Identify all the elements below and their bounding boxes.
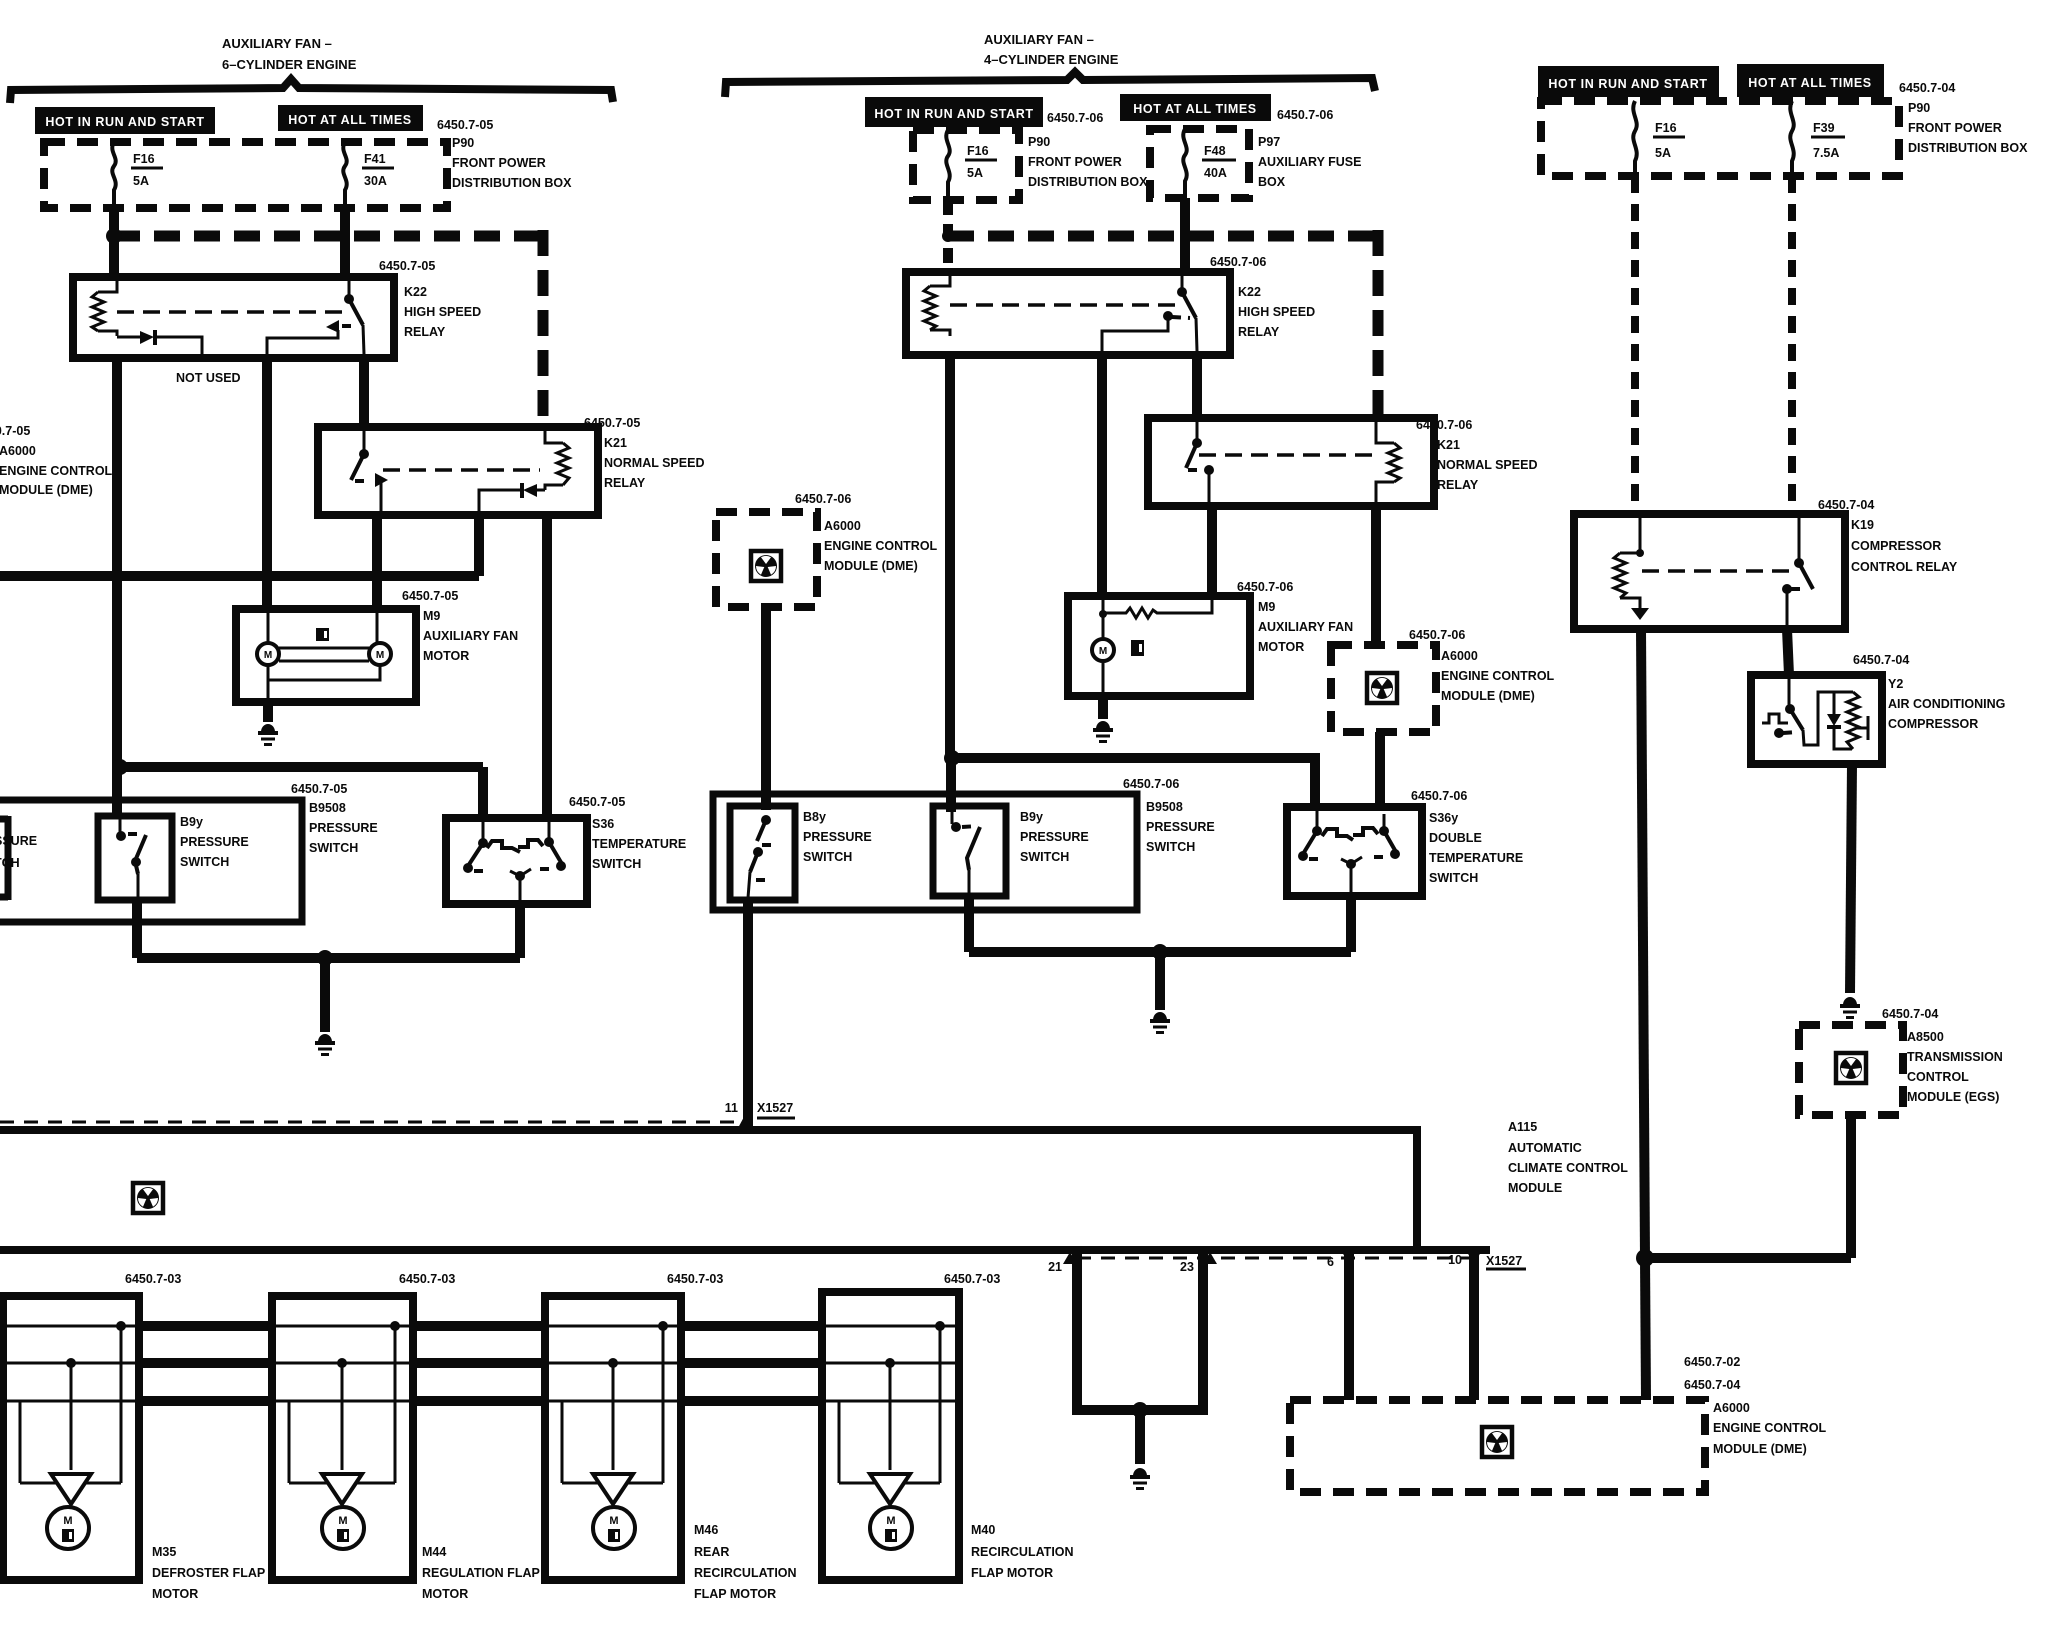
svg-text:6450.7-05: 6450.7-05: [402, 589, 458, 603]
svg-text:PRESSURE: PRESSURE: [309, 821, 378, 835]
svg-text:RELAY: RELAY: [404, 325, 446, 339]
svg-text:6450.7-06: 6450.7-06: [1237, 580, 1293, 594]
svg-text:X1527: X1527: [757, 1101, 793, 1115]
svg-text:SWITCH: SWITCH: [592, 857, 641, 871]
svg-text:FLAP MOTOR: FLAP MOTOR: [694, 1587, 776, 1601]
svg-text:6450.7-06: 6450.7-06: [1411, 789, 1467, 803]
svg-text:23: 23: [1180, 1260, 1194, 1274]
svg-text:NORMAL SPEED: NORMAL SPEED: [1437, 458, 1537, 472]
svg-text:B9508: B9508: [1146, 800, 1183, 814]
svg-text:6450.7-02: 6450.7-02: [1684, 1355, 1740, 1369]
svg-text:F16: F16: [133, 152, 155, 166]
svg-text:REGULATION FLAP: REGULATION FLAP: [422, 1566, 540, 1580]
svg-text:AUTOMATIC: AUTOMATIC: [1508, 1141, 1582, 1155]
svg-text:MODULE (DME): MODULE (DME): [0, 483, 93, 497]
svg-text:TRANSMISSION: TRANSMISSION: [1907, 1050, 2003, 1064]
svg-text:REAR: REAR: [694, 1545, 729, 1559]
svg-text:TEMPERATURE: TEMPERATURE: [1429, 851, 1523, 865]
svg-text:40A: 40A: [1204, 166, 1227, 180]
svg-text:A6000: A6000: [1713, 1401, 1750, 1415]
svg-text:5A: 5A: [967, 166, 983, 180]
svg-text:P90: P90: [452, 136, 474, 150]
svg-text:AUXILIARY FAN –: AUXILIARY FAN –: [222, 36, 332, 51]
svg-text:PRESSURE: PRESSURE: [803, 830, 872, 844]
svg-text:K21: K21: [1437, 438, 1460, 452]
svg-text:FRONT POWER: FRONT POWER: [1908, 121, 2002, 135]
svg-text:SWITCH: SWITCH: [309, 841, 358, 855]
svg-text:TEMPERATURE: TEMPERATURE: [592, 837, 686, 851]
svg-text:BOX: BOX: [1258, 175, 1286, 189]
svg-text:K19: K19: [1851, 518, 1874, 532]
svg-text:AUXILIARY FUSE: AUXILIARY FUSE: [1258, 155, 1362, 169]
svg-text:6450.7-03: 6450.7-03: [399, 1272, 455, 1286]
svg-text:ENGINE CONTROL: ENGINE CONTROL: [1713, 1421, 1827, 1435]
svg-text:DISTRIBUTION BOX: DISTRIBUTION BOX: [452, 176, 572, 190]
svg-text:DEFROSTER FLAP: DEFROSTER FLAP: [152, 1566, 265, 1580]
svg-text:PRESSURE: PRESSURE: [180, 835, 249, 849]
svg-text:CONTROL RELAY: CONTROL RELAY: [1851, 560, 1958, 574]
svg-text:ENGINE CONTROL: ENGINE CONTROL: [0, 464, 113, 478]
svg-text:F39: F39: [1813, 121, 1835, 135]
svg-text:MOTOR: MOTOR: [152, 1587, 198, 1601]
svg-text:AUXILIARY FAN: AUXILIARY FAN: [423, 629, 518, 643]
svg-text:6450.7-05: 6450.7-05: [437, 118, 493, 132]
svg-text:X1527: X1527: [1486, 1254, 1522, 1268]
svg-text:6450.7-06: 6450.7-06: [1047, 111, 1103, 125]
svg-text:PRESSURE: PRESSURE: [1020, 830, 1089, 844]
svg-text:11: 11: [725, 1101, 738, 1115]
svg-text:M9: M9: [1258, 600, 1275, 614]
svg-text:6450.7-06: 6450.7-06: [1210, 255, 1266, 269]
svg-text:F48: F48: [1204, 144, 1226, 158]
svg-text:6–CYLINDER ENGINE: 6–CYLINDER ENGINE: [222, 57, 357, 72]
svg-text:HOT AT ALL TIMES: HOT AT ALL TIMES: [288, 113, 411, 127]
svg-text:RECIRCULATION: RECIRCULATION: [694, 1566, 797, 1580]
svg-text:RECIRCULATION: RECIRCULATION: [971, 1545, 1074, 1559]
svg-text:4–CYLINDER ENGINE: 4–CYLINDER ENGINE: [984, 52, 1119, 67]
svg-text:K22: K22: [1238, 285, 1261, 299]
svg-text:ENGINE CONTROL: ENGINE CONTROL: [824, 539, 938, 553]
svg-text:Y2: Y2: [1888, 677, 1903, 691]
svg-text:6450.7-06: 6450.7-06: [1277, 108, 1333, 122]
svg-text:FRONT POWER: FRONT POWER: [1028, 155, 1122, 169]
svg-text:MODULE (EGS): MODULE (EGS): [1907, 1090, 1999, 1104]
svg-text:AIR CONDITIONING: AIR CONDITIONING: [1888, 697, 2005, 711]
svg-text:SWITCH: SWITCH: [1429, 871, 1478, 885]
svg-text:A6000: A6000: [1441, 649, 1478, 663]
svg-text:SWITCH: SWITCH: [180, 855, 229, 869]
svg-text:6450.7-03: 6450.7-03: [667, 1272, 723, 1286]
svg-text:NORMAL SPEED: NORMAL SPEED: [604, 456, 704, 470]
svg-text:6450.7-04: 6450.7-04: [1684, 1378, 1740, 1392]
svg-text:A6000: A6000: [0, 444, 36, 458]
svg-text:HOT IN RUN AND START: HOT IN RUN AND START: [45, 115, 204, 129]
svg-text:MOTOR: MOTOR: [1258, 640, 1304, 654]
svg-text:PRESSURE: PRESSURE: [1146, 820, 1215, 834]
svg-text:6450.7-05: 6450.7-05: [291, 782, 347, 796]
svg-text:NOT USED: NOT USED: [176, 371, 241, 385]
svg-text:COMPRESSOR: COMPRESSOR: [1888, 717, 1978, 731]
svg-text:7.5A: 7.5A: [1813, 146, 1839, 160]
svg-text:6450.7-05: 6450.7-05: [569, 795, 625, 809]
svg-text:ENGINE CONTROL: ENGINE CONTROL: [1441, 669, 1555, 683]
svg-text:M40: M40: [971, 1523, 995, 1537]
svg-text:K21: K21: [604, 436, 627, 450]
svg-text:6450.7-06: 6450.7-06: [795, 492, 851, 506]
svg-text:6450.7-03: 6450.7-03: [944, 1272, 1000, 1286]
svg-text:MODULE (DME): MODULE (DME): [824, 559, 918, 573]
svg-text:M9: M9: [423, 609, 440, 623]
svg-text:F41: F41: [364, 152, 386, 166]
svg-text:RELAY: RELAY: [1437, 478, 1479, 492]
svg-text:MODULE (DME): MODULE (DME): [1441, 689, 1535, 703]
svg-text:HOT IN RUN AND START: HOT IN RUN AND START: [1548, 77, 1707, 91]
svg-text:COMPRESSOR: COMPRESSOR: [1851, 539, 1941, 553]
svg-text:MOTOR: MOTOR: [422, 1587, 468, 1601]
svg-text:6450.7-05: 6450.7-05: [584, 416, 640, 430]
svg-text:AUXILIARY FAN –: AUXILIARY FAN –: [984, 32, 1094, 47]
svg-text:S36y: S36y: [1429, 811, 1458, 825]
svg-text:S36: S36: [592, 817, 614, 831]
svg-text:A8500: A8500: [1907, 1030, 1944, 1044]
svg-text:6450.7-06: 6450.7-06: [1409, 628, 1465, 642]
svg-text:5A: 5A: [133, 174, 149, 188]
svg-text:F16: F16: [967, 144, 989, 158]
svg-text:HIGH SPEED: HIGH SPEED: [1238, 305, 1315, 319]
svg-text:FLAP MOTOR: FLAP MOTOR: [971, 1566, 1053, 1580]
svg-text:B9y: B9y: [1020, 810, 1043, 824]
svg-text:6450.7-04: 6450.7-04: [1882, 1007, 1938, 1021]
svg-text:21: 21: [1048, 1260, 1062, 1274]
svg-text:B9y: B9y: [180, 815, 203, 829]
svg-text:AUXILIARY FAN: AUXILIARY FAN: [1258, 620, 1353, 634]
svg-text:10: 10: [1448, 1253, 1462, 1267]
svg-text:MODULE: MODULE: [1508, 1181, 1562, 1195]
svg-text:DISTRIBUTION BOX: DISTRIBUTION BOX: [1028, 175, 1148, 189]
svg-text:HOT AT ALL TIMES: HOT AT ALL TIMES: [1748, 76, 1871, 90]
svg-text:FRONT POWER: FRONT POWER: [452, 156, 546, 170]
svg-text:6: 6: [1327, 1255, 1334, 1269]
svg-text:30A: 30A: [364, 174, 387, 188]
svg-text:CLIMATE CONTROL: CLIMATE CONTROL: [1508, 1161, 1628, 1175]
svg-text:DOUBLE: DOUBLE: [1429, 831, 1482, 845]
svg-text:SWITCH: SWITCH: [1020, 850, 1069, 864]
svg-text:6450.7-05: 6450.7-05: [0, 424, 30, 438]
svg-text:MODULE (DME): MODULE (DME): [1713, 1442, 1807, 1456]
svg-text:P90: P90: [1908, 101, 1930, 115]
svg-text:6450.7-06: 6450.7-06: [1123, 777, 1179, 791]
svg-text:F16: F16: [1655, 121, 1677, 135]
svg-text:B9508: B9508: [309, 801, 346, 815]
svg-text:6450.7-05: 6450.7-05: [379, 259, 435, 273]
svg-text:SSURE: SSURE: [0, 834, 37, 848]
svg-text:MOTOR: MOTOR: [423, 649, 469, 663]
svg-text:HOT AT ALL TIMES: HOT AT ALL TIMES: [1133, 102, 1256, 116]
svg-text:5A: 5A: [1655, 146, 1671, 160]
svg-text:B8y: B8y: [803, 810, 826, 824]
svg-text:CONTROL: CONTROL: [1907, 1070, 1969, 1084]
svg-text:HIGH SPEED: HIGH SPEED: [404, 305, 481, 319]
svg-text:6450.7-04: 6450.7-04: [1853, 653, 1909, 667]
svg-text:6450.7-04: 6450.7-04: [1899, 81, 1955, 95]
svg-text:HOT IN RUN AND START: HOT IN RUN AND START: [874, 107, 1033, 121]
svg-text:DISTRIBUTION BOX: DISTRIBUTION BOX: [1908, 141, 2028, 155]
svg-text:A115: A115: [1508, 1120, 1537, 1134]
svg-text:M35: M35: [152, 1545, 176, 1559]
svg-text:P90: P90: [1028, 135, 1050, 149]
svg-text:P97: P97: [1258, 135, 1280, 149]
svg-text:M44: M44: [422, 1545, 446, 1559]
svg-text:TCH: TCH: [0, 856, 20, 870]
svg-text:SWITCH: SWITCH: [803, 850, 852, 864]
svg-text:K22: K22: [404, 285, 427, 299]
svg-text:6450.7-06: 6450.7-06: [1416, 418, 1472, 432]
svg-text:6450.7-04: 6450.7-04: [1818, 498, 1874, 512]
svg-text:SWITCH: SWITCH: [1146, 840, 1195, 854]
svg-text:RELAY: RELAY: [604, 476, 646, 490]
svg-text:A6000: A6000: [824, 519, 861, 533]
svg-text:M46: M46: [694, 1523, 718, 1537]
svg-text:RELAY: RELAY: [1238, 325, 1280, 339]
svg-text:6450.7-03: 6450.7-03: [125, 1272, 181, 1286]
